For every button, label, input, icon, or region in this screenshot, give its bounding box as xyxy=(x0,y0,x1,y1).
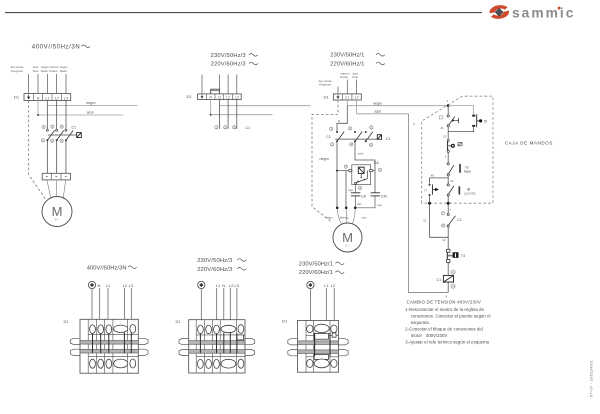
supply wire L1 xyxy=(218,75,220,91)
PE wire dashed to motor frame xyxy=(29,101,47,201)
block3 right mounting tabs xyxy=(339,339,349,356)
svg-text:C1: C1 xyxy=(457,218,462,222)
value label 220V/60Hz/3 xyxy=(197,267,246,273)
svg-text:rojo: rojo xyxy=(361,215,366,219)
wire N down xyxy=(99,288,101,326)
svg-text:L3: L3 xyxy=(129,283,134,288)
svg-text:1-Desconectar el neutro de la: 1-Desconectar el neutro de la regleta de xyxy=(405,307,484,312)
svg-text:L2: L2 xyxy=(55,96,59,100)
wire coil to azul return xyxy=(447,282,449,292)
PE wire mark xyxy=(198,281,205,288)
value label 220V/60Hz/3 xyxy=(211,61,258,67)
svg-text:rojo: rojo xyxy=(377,203,382,207)
supply wire PE xyxy=(201,75,203,94)
svg-text:230V/50Hz/3: 230V/50Hz/3 xyxy=(211,53,246,59)
wire L1 down xyxy=(216,288,218,326)
svg-text:L3: L3 xyxy=(235,96,239,100)
wire L1 jog to contact 1 xyxy=(337,106,347,132)
terminal block D1 body xyxy=(189,320,245,373)
svg-text:L1: L1 xyxy=(45,96,49,100)
svg-text:L1: L1 xyxy=(324,283,329,288)
svg-text:azul: azul xyxy=(358,152,364,156)
svg-text:D1: D1 xyxy=(176,319,182,324)
svg-text:L1: L1 xyxy=(216,283,221,288)
wire label azul xyxy=(375,109,382,113)
wire CA to junction xyxy=(355,196,357,208)
note line 1b xyxy=(411,313,491,318)
svg-text:L1: L1 xyxy=(345,96,349,100)
svg-text:D1: D1 xyxy=(64,319,70,324)
svg-text:black: black xyxy=(60,69,68,73)
note line 1c xyxy=(411,320,430,325)
svg-text:D1: D1 xyxy=(282,318,288,323)
svg-text:negro: negro xyxy=(320,157,329,161)
wire number 40 xyxy=(431,174,435,178)
wire I1 to I2 xyxy=(447,127,449,140)
svg-text:conexiones. Conectar el puente: conexiones. Conectar el puente según el xyxy=(411,313,491,318)
wire colour label marron/brown xyxy=(49,65,59,73)
supply wire L2 xyxy=(356,80,358,94)
wire colour label negro/black xyxy=(60,65,68,73)
svg-text:220V/60Hz/1: 220V/60Hz/1 xyxy=(330,61,364,67)
wire label H xyxy=(338,119,340,123)
svg-text:L2: L2 xyxy=(331,283,336,288)
motor M 1ph xyxy=(333,223,362,252)
wire label azul xyxy=(87,111,94,115)
terminal label L2 xyxy=(123,283,128,288)
contact pin 5 xyxy=(233,125,236,129)
wire negro from L1 to control node xyxy=(347,100,448,106)
supply wire PE xyxy=(28,74,30,94)
svg-text:230V/50Hz/3: 230V/50Hz/3 xyxy=(197,258,232,264)
block2 bottom screw ovals xyxy=(198,359,244,368)
lead label rojo xyxy=(361,215,366,219)
block2 left mounting tabs xyxy=(179,339,189,356)
relay KA box xyxy=(349,165,373,185)
contactor coil C1 xyxy=(437,276,454,283)
svg-text:22: 22 xyxy=(443,134,447,138)
block label D1 xyxy=(64,319,70,324)
svg-text:41: 41 xyxy=(450,179,454,183)
svg-text:C1: C1 xyxy=(437,278,442,282)
junction negro xyxy=(336,207,339,210)
wire label azul xyxy=(358,152,364,156)
svg-text:N: N xyxy=(37,96,40,100)
wire colour label Am-verde/Yel-green xyxy=(11,65,24,73)
note line 1a xyxy=(405,307,484,312)
wire number 7 xyxy=(449,208,451,212)
svg-text:L1: L1 xyxy=(106,283,111,288)
node 1 junction xyxy=(447,99,450,107)
wire C1 aux to T4 junction xyxy=(447,227,449,249)
value label 220V/60Hz/1 xyxy=(299,270,344,276)
title rule line xyxy=(5,12,482,14)
wire L2 down xyxy=(123,288,125,326)
svg-text:L2: L2 xyxy=(226,96,230,100)
svg-text:Yel-green: Yel-green xyxy=(11,69,24,73)
switch IT xyxy=(424,184,439,196)
supply wire L2 xyxy=(56,74,58,94)
svg-text:IT: IT xyxy=(424,188,427,192)
svg-text:1: 1 xyxy=(445,154,447,158)
wire PE down xyxy=(309,289,311,326)
svg-text:2-Conectar el bloque de conexi: 2-Conectar el bloque de conexiones del xyxy=(405,326,483,331)
contactor C1 main contacts xyxy=(41,125,76,143)
svg-text:tapa: tapa xyxy=(464,170,471,174)
switch I5 xyxy=(472,114,487,127)
value label 400V//50Hz/3N xyxy=(32,45,90,51)
wire node to I5 branch xyxy=(448,106,474,115)
wire number 1 xyxy=(445,154,447,158)
svg-text:C1: C1 xyxy=(386,137,391,141)
wire number 41 xyxy=(450,179,454,183)
wire IS to IB xyxy=(447,176,449,184)
wire L3 down xyxy=(236,288,238,326)
block1 left mounting tabs xyxy=(70,338,80,355)
wire negro contact2 down xyxy=(336,142,338,208)
svg-text:230V/50Hz/1: 230V/50Hz/1 xyxy=(299,261,333,267)
wire azul from L2 xyxy=(357,100,409,114)
contactor C1 drive symbol xyxy=(377,135,381,140)
switch I1 xyxy=(439,115,458,127)
svg-text:D1: D1 xyxy=(324,94,330,99)
svg-text:C1: C1 xyxy=(326,135,331,139)
note line 3 xyxy=(405,340,489,345)
svg-text:21: 21 xyxy=(440,126,444,130)
PE dashed to motor frame xyxy=(312,100,338,222)
wire N to azul tap xyxy=(210,100,273,116)
wire N to azul tap xyxy=(37,101,123,117)
svg-text:H: H xyxy=(338,119,340,123)
motor terminal box xyxy=(42,173,70,180)
svg-text:C1: C1 xyxy=(246,126,251,130)
terminal strip label D1 xyxy=(187,94,193,99)
terminal strip label D1 xyxy=(14,95,20,100)
wire CM to junction xyxy=(356,196,375,208)
block3 top screw ovals xyxy=(307,324,338,332)
block label D1 xyxy=(282,318,288,323)
wire KA contact to CA xyxy=(355,184,357,193)
block3 conductor segments xyxy=(315,333,330,356)
contactor C1 contacts single phase xyxy=(330,126,378,147)
wire L1 down xyxy=(107,288,109,326)
wire label rojo xyxy=(348,188,353,192)
svg-text:blue: blue xyxy=(33,69,39,73)
svg-text:6: 6 xyxy=(446,295,448,299)
wire contact1 to motor terminal xyxy=(46,141,48,173)
coil pin 13 xyxy=(451,270,455,274)
lead label blanco xyxy=(340,215,349,219)
block3 left mounting tabs xyxy=(288,339,298,356)
block1 top screw ovals xyxy=(90,325,136,334)
block2 jumper connector notch xyxy=(237,335,244,340)
wire contact2 to motor terminal xyxy=(56,141,58,173)
contactor label C1 left xyxy=(326,135,331,139)
wire number 62 xyxy=(442,238,446,242)
wire I2 to IS xyxy=(447,152,449,162)
wire number 9 xyxy=(413,122,415,126)
drawing number vertical xyxy=(589,360,594,397)
motor lead blanco xyxy=(345,209,348,223)
terminal label L2 xyxy=(229,283,234,288)
value label 220V/60Hz/1 xyxy=(330,61,385,67)
wire colour label azul/blue xyxy=(353,72,359,80)
svg-text:negro: negro xyxy=(373,101,382,105)
wire PE down xyxy=(200,289,202,326)
note title xyxy=(407,299,482,304)
motor lead rojo xyxy=(352,209,355,224)
thermal relay T4 xyxy=(447,249,466,262)
wire L2 down xyxy=(229,288,231,326)
block3 jumper body top xyxy=(314,333,328,339)
note line 2a xyxy=(405,326,483,331)
PE wire mark xyxy=(307,281,314,288)
svg-text:400V//50Hz/3N: 400V//50Hz/3N xyxy=(87,265,127,271)
svg-text:blanco: blanco xyxy=(340,215,349,219)
wire colour label marron/brown xyxy=(340,72,350,80)
KA pin 2 xyxy=(359,186,362,190)
motor lead negro xyxy=(337,209,341,224)
supply wire L1 xyxy=(46,74,48,94)
wire label rojo under CA xyxy=(357,202,362,206)
svg-text:CAJA DE MANDOS: CAJA DE MANDOS xyxy=(505,140,553,145)
contactor C1 drive symbol xyxy=(77,133,82,138)
wire contact4 to capacitor branch xyxy=(355,142,375,193)
pin label 22 xyxy=(443,134,447,138)
svg-text:esquema.: esquema. xyxy=(411,320,430,325)
svg-text:L3: L3 xyxy=(234,283,239,288)
svg-text:N: N xyxy=(222,283,225,288)
supply wire N xyxy=(37,74,39,94)
svg-text:N: N xyxy=(98,283,101,288)
contactor C1 label xyxy=(72,126,77,130)
contactor label C1 right xyxy=(386,137,391,141)
wire PE down xyxy=(91,289,93,326)
svg-text:13: 13 xyxy=(451,270,455,274)
PE wire mark xyxy=(88,281,95,288)
terminal strip label D1 xyxy=(324,94,330,99)
pin label 21 xyxy=(440,126,444,130)
capacitor CM xyxy=(371,193,387,199)
svg-text:D1: D1 xyxy=(187,94,193,99)
wire number 6 xyxy=(446,295,448,299)
wire colour label azul/blue xyxy=(33,65,39,73)
contact C1 aux xyxy=(441,211,462,227)
svg-text:62: 62 xyxy=(442,238,446,242)
block3 jumper rails xyxy=(298,341,339,354)
motor lead U xyxy=(47,180,51,197)
svg-text:9: 9 xyxy=(413,122,415,126)
value label 400V//50Hz/3N xyxy=(87,265,137,271)
relay KA label xyxy=(374,161,379,165)
terminal block D1 body xyxy=(298,321,339,373)
svg-text:motor 400V/230V: motor 400V/230V xyxy=(411,333,448,338)
wire KA to capacitor branch xyxy=(373,170,375,172)
svg-text:IB: IB xyxy=(467,187,471,191)
svg-text:3-Ajustar el rele termico segú: 3-Ajustar el rele termico según el esque… xyxy=(405,340,489,345)
wire label negro xyxy=(86,101,95,105)
terminal label L3 xyxy=(234,283,239,288)
block3 bottom screw ovals xyxy=(307,359,338,368)
terminal label L3 xyxy=(129,283,134,288)
wire negro tap to KA xyxy=(336,170,349,172)
svg-text:L3: L3 xyxy=(64,96,68,100)
svg-text:L1: L1 xyxy=(218,96,222,100)
block3 jumper body bottom xyxy=(314,354,328,359)
contact pin 1 xyxy=(215,125,218,129)
wire L1 down xyxy=(325,288,327,326)
svg-text:CM: CM xyxy=(381,194,387,198)
wire node down to I1 xyxy=(447,106,449,115)
svg-text:black: black xyxy=(41,69,49,73)
switch IS tapa xyxy=(447,163,471,176)
svg-text:negro: negro xyxy=(86,101,95,105)
block1 conductor segments xyxy=(93,332,132,353)
terminal label N xyxy=(222,283,225,288)
block1 jumper rails xyxy=(80,341,138,354)
svg-text:T4: T4 xyxy=(461,254,465,258)
svg-text:I5: I5 xyxy=(484,119,487,123)
wire negro tap from L1 xyxy=(47,104,137,106)
wire negro tap from L1 xyxy=(219,105,310,107)
block2 right mounting tabs xyxy=(245,339,255,356)
wire colour label Am-verde/Yel-green xyxy=(319,79,332,87)
pushbutton I2 xyxy=(447,139,462,152)
svg-text:61: 61 xyxy=(423,218,427,222)
svg-text:(puerta): (puerta) xyxy=(464,192,475,196)
block1 right mounting tabs xyxy=(138,338,148,355)
supply wire L3 xyxy=(236,75,238,94)
block2 conductor segments xyxy=(200,333,237,354)
capacitor CA xyxy=(351,193,367,199)
motor lead W xyxy=(63,180,65,197)
wire T4 to coil xyxy=(447,262,449,275)
lead label negro xyxy=(325,215,333,219)
svg-text:7: 7 xyxy=(449,208,451,212)
wire L2 down xyxy=(56,101,58,130)
svg-text:220V/60Hz/1: 220V/60Hz/1 xyxy=(299,270,333,276)
supply wire L1 xyxy=(346,80,348,94)
KA pin 4 xyxy=(378,168,381,172)
terminal label L1 xyxy=(324,283,329,288)
svg-text:400V//50Hz/3N: 400V//50Hz/3N xyxy=(32,45,81,51)
supply wire L2 xyxy=(227,75,229,94)
svg-text:sammic: sammic xyxy=(512,5,575,20)
wire I5 return to main chain xyxy=(448,127,473,132)
svg-text:negro: negro xyxy=(325,215,333,219)
contactor label C1 xyxy=(246,126,251,130)
wire label negro xyxy=(373,101,382,105)
svg-text:230V/50Hz/1: 230V/50Hz/1 xyxy=(330,53,364,59)
value label 230V/50Hz/3 xyxy=(197,258,246,264)
value label 230V/50Hz/3 xyxy=(211,53,258,59)
wire L2 down xyxy=(227,100,229,129)
wire L1 down xyxy=(218,100,220,129)
terminal label L2 xyxy=(331,283,336,288)
svg-text:brown: brown xyxy=(340,75,349,79)
KA pin 3 xyxy=(344,165,347,169)
block3 jumper connector notch xyxy=(332,333,336,337)
svg-text:220V/60Hz/3: 220V/60Hz/3 xyxy=(197,267,232,273)
wire L3 down xyxy=(236,100,238,129)
svg-text:D1: D1 xyxy=(14,95,20,100)
motor lead V xyxy=(55,180,58,197)
wire L2 down xyxy=(333,288,335,326)
svg-text:rojo: rojo xyxy=(348,188,353,192)
svg-text:07-07 - 2051340/1: 07-07 - 2051340/1 xyxy=(589,360,594,397)
svg-text:rojo: rojo xyxy=(357,202,362,206)
terminal label L1 xyxy=(216,283,221,288)
caja de mandos dashed enclosure xyxy=(422,96,493,203)
svg-text:14: 14 xyxy=(451,284,455,288)
terminal label N xyxy=(98,283,101,288)
svg-text:C1: C1 xyxy=(72,126,77,130)
block label D1 xyxy=(176,319,182,324)
junction blanco xyxy=(345,207,348,210)
block2 top screw ovals xyxy=(198,325,244,334)
wire azul down to coil return xyxy=(409,114,449,293)
svg-text:220V/60Hz/3: 220V/60Hz/3 xyxy=(211,61,246,67)
supply wire PE xyxy=(337,87,339,94)
supply wire L3 xyxy=(65,74,67,94)
wire IT through bushing xyxy=(428,196,431,237)
wire IS node to IT branch xyxy=(430,178,449,184)
coil pin 14 xyxy=(451,284,455,288)
wire IT branch rejoin xyxy=(430,236,449,238)
wire N down xyxy=(223,288,225,326)
svg-text:CAMBIO DE TENSION 400V/230V: CAMBIO DE TENSION 400V/230V xyxy=(407,299,482,304)
wire L3 down xyxy=(65,101,67,130)
motor M 3ph xyxy=(42,197,72,227)
svg-text:L2: L2 xyxy=(123,283,128,288)
svg-text:azul: azul xyxy=(87,111,94,115)
svg-text:brown: brown xyxy=(49,69,58,73)
terminal strip D1 xyxy=(24,94,71,101)
svg-text:azul: azul xyxy=(375,109,382,113)
terminal block D1 body xyxy=(80,319,138,373)
terminal strip D1 xyxy=(198,94,242,100)
wire label rojo under CM xyxy=(377,203,382,207)
svg-text:L2: L2 xyxy=(355,96,359,100)
svg-text:CA: CA xyxy=(361,194,367,198)
wire contact3 to motor terminal xyxy=(65,141,67,173)
wire colour label negro/black xyxy=(41,65,49,73)
terminal label L1 xyxy=(106,283,111,288)
value label 230V/50Hz/1 xyxy=(299,261,344,267)
label CAJA DE MANDOS xyxy=(505,140,553,145)
wire IB through bushing xyxy=(447,196,450,213)
svg-text:3∼: 3∼ xyxy=(54,218,59,222)
junction rojo xyxy=(354,207,357,210)
jumper N-L1 xyxy=(211,89,220,94)
block1 bottom screw ovals xyxy=(90,359,136,368)
svg-text:1: 1 xyxy=(447,99,449,103)
sammic logo xyxy=(489,5,575,20)
terminal strip D1 xyxy=(333,94,361,100)
wire L1 down xyxy=(46,101,48,130)
wire L3 down xyxy=(130,288,132,326)
svg-text:KA: KA xyxy=(374,161,379,165)
svg-text:1∼: 1∼ xyxy=(345,244,350,248)
contact pin 3 xyxy=(224,125,227,129)
value label 230V/50Hz/1 xyxy=(330,53,385,59)
note line 2b xyxy=(411,333,448,338)
wire KA tap down to junction xyxy=(345,171,347,208)
switch IB puerta xyxy=(447,184,475,196)
svg-text:Yel-green: Yel-green xyxy=(319,82,332,86)
svg-text:IS: IS xyxy=(465,165,469,169)
wire number 61 xyxy=(423,218,427,222)
